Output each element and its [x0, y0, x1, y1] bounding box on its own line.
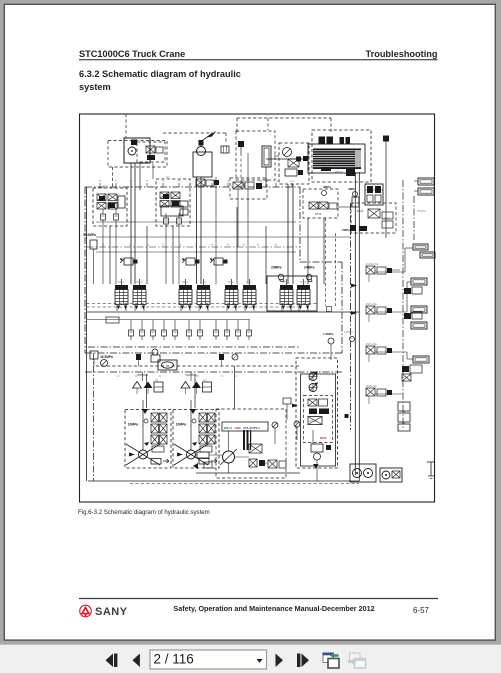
svg-text:S6: S6	[103, 184, 107, 188]
svg-text:24MPa: 24MPa	[304, 266, 315, 270]
svg-text:BT12: BT12	[228, 281, 234, 284]
svg-text:8MPa fhE: 8MPa fhE	[366, 303, 377, 306]
svg-text:2 / 116: 2 / 116	[154, 652, 194, 667]
svg-text:20MPa: 20MPa	[271, 266, 282, 270]
svg-text:20MPa fhE: 20MPa fhE	[366, 263, 379, 266]
svg-text:BT12: BT12	[118, 281, 124, 284]
svg-text:BT12: BT12	[283, 281, 289, 284]
svg-text:9MPa fhE: 9MPa fhE	[366, 385, 377, 388]
svg-text:6.3.2 Schematic diagram of hyd: 6.3.2 Schematic diagram of hydraulic	[79, 69, 241, 79]
svg-text:7MPa: 7MPa	[342, 228, 350, 232]
svg-text:Troubleshooting: Troubleshooting	[366, 49, 438, 59]
svg-text:1.5MPa: 1.5MPa	[323, 332, 334, 336]
svg-text:BT12: BT12	[200, 281, 206, 284]
svg-text:W1=2: W1=2	[224, 426, 232, 430]
svg-text:BT12: BT12	[335, 171, 343, 175]
svg-text:S7: S7	[166, 175, 170, 179]
svg-text:system: system	[79, 82, 111, 92]
svg-text:15MPa: 15MPa	[344, 330, 353, 334]
svg-text:Safety, Operation and Maintena: Safety, Operation and Maintenance Manual…	[173, 604, 374, 613]
svg-text:4MPa: 4MPa	[384, 216, 391, 220]
svg-text:34.5MPa: 34.5MPa	[83, 233, 96, 237]
svg-text:10MPa: 10MPa	[176, 422, 187, 426]
svg-text:BT23: BT23	[320, 436, 327, 440]
svg-text:2MPa: 2MPa	[323, 185, 331, 189]
svg-text:BT20: BT20	[357, 209, 364, 213]
svg-text:SANY: SANY	[95, 606, 128, 618]
svg-text:Fig.6-3.2 Schematic diagram of: Fig.6-3.2 Schematic diagram of hydraulic…	[78, 509, 210, 516]
svg-text:16.5MPa: 16.5MPa	[100, 355, 113, 359]
svg-text:xW2: xW2	[235, 426, 242, 430]
svg-text:BT13: BT13	[315, 212, 322, 216]
svg-text:6-57: 6-57	[413, 606, 430, 615]
svg-text:8MPa fhE: 8MPa fhE	[366, 343, 377, 346]
svg-text:BT12: BT12	[300, 281, 306, 284]
svg-text:BT12: BT12	[182, 281, 188, 284]
svg-text:xP1+P2P3 1: xP1+P2P3 1	[243, 426, 260, 430]
svg-text:4MPa: 4MPa	[348, 187, 356, 191]
svg-text:STC1000C6 Truck Crane: STC1000C6 Truck Crane	[79, 49, 185, 59]
svg-text:BT12: BT12	[246, 281, 252, 284]
svg-text:25MPa: 25MPa	[417, 209, 426, 213]
svg-text:10MPa: 10MPa	[128, 422, 139, 426]
svg-text:4WE6: 4WE6	[309, 421, 316, 423]
svg-text:BT12: BT12	[136, 281, 142, 284]
